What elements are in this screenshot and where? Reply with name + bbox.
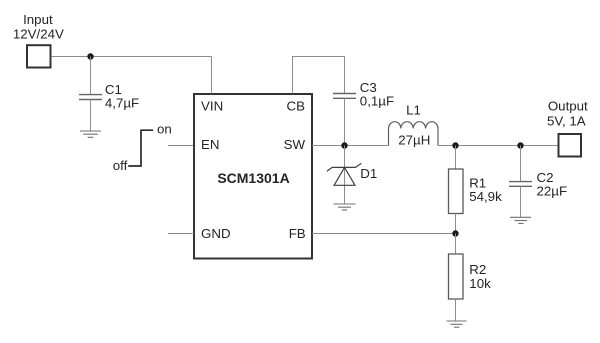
wire SW node down through D1 to ground [344, 146, 346, 205]
diode D1 [327, 163, 361, 185]
resistor R2 [449, 254, 464, 299]
svg-text:54,9k: 54,9k [469, 189, 502, 204]
wire C1 to ground [90, 100, 92, 132]
svg-text:CB: CB [287, 99, 306, 114]
svg-text:27µH: 27µH [398, 133, 430, 148]
wire FB rail [312, 233, 456, 235]
wire C3 down to SW node [344, 98, 346, 145]
wire VIN riser [211, 57, 213, 94]
svg-text:SW: SW [284, 137, 306, 152]
svg-text:GND: GND [201, 226, 231, 241]
svg-text:4,7µF: 4,7µF [105, 96, 139, 111]
ground below C1 [80, 131, 101, 137]
svg-text:10k: 10k [469, 276, 491, 291]
wire EN stub [168, 145, 194, 147]
capacitor C1 [79, 95, 102, 100]
node SW junction [341, 142, 347, 148]
svg-text:12V/24V: 12V/24V [13, 26, 64, 41]
wire FB node down to R2 [455, 234, 457, 255]
node R1 junction [452, 142, 458, 148]
wire down to R1 [455, 146, 457, 170]
svg-text:on: on [157, 121, 172, 136]
wire R2 to ground [455, 299, 457, 321]
svg-text:EN: EN [201, 137, 219, 152]
wire CB riser [293, 57, 345, 94]
wire C2 to ground [520, 186, 522, 217]
node FB junction [452, 230, 458, 236]
svg-text:0,1µF: 0,1µF [360, 94, 394, 109]
output terminal box [559, 134, 582, 157]
svg-text:VIN: VIN [201, 99, 223, 114]
svg-text:5V, 1A: 5V, 1A [547, 113, 586, 128]
resistor R1 [449, 169, 464, 214]
capacitor C2 [509, 182, 532, 187]
wire output rail [438, 145, 558, 147]
node C2 junction [517, 142, 523, 148]
svg-text:Output: Output [548, 99, 588, 114]
wire input to VIN riser [52, 56, 212, 58]
inductor L1 [389, 122, 439, 146]
ground below C2 [510, 217, 531, 223]
input terminal box [27, 45, 51, 67]
svg-text:off: off [113, 158, 128, 173]
wire GND stub [168, 233, 194, 235]
ground below R2 [447, 321, 467, 327]
svg-text:SCM1301A: SCM1301A [217, 170, 289, 186]
wire junction down to C1 [90, 57, 92, 95]
wire SW rail [312, 145, 389, 147]
svg-text:R2: R2 [469, 262, 486, 277]
svg-text:L1: L1 [406, 103, 421, 118]
node C1 junction [87, 53, 93, 59]
svg-text:FB: FB [289, 226, 306, 241]
svg-text:Input: Input [23, 12, 53, 27]
svg-text:22µF: 22µF [537, 183, 568, 198]
svg-text:D1: D1 [360, 166, 377, 181]
ground below D1 [334, 204, 356, 210]
on/off selector step [128, 130, 153, 166]
wire down to C2 [520, 146, 522, 182]
capacitor C3 [333, 94, 356, 99]
wire R1 to FB node [455, 214, 457, 234]
op-amp U1 SCM1301A body [194, 94, 312, 259]
